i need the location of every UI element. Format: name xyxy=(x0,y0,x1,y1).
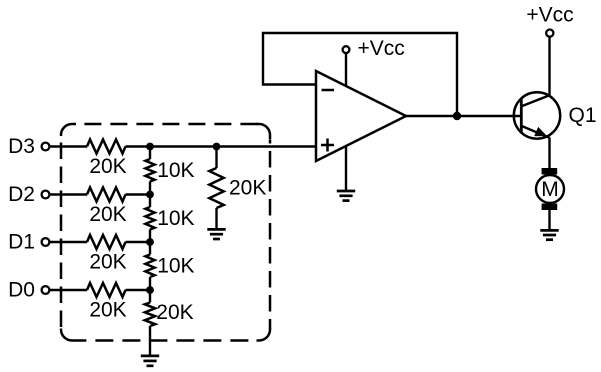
wire ladder segment xyxy=(149,277,151,290)
wire 20K to ground xyxy=(149,326,151,356)
wire +Vcc to collector xyxy=(548,38,550,96)
wire +Vcc to op-amp xyxy=(345,54,347,87)
+Vcc terminal (op-amp supply) xyxy=(343,37,405,60)
svg-text:D3: D3 xyxy=(8,135,35,158)
svg-text:D1: D1 xyxy=(8,231,35,254)
ground (motor) xyxy=(540,230,558,239)
resistor 20K (D1 input) xyxy=(87,235,127,273)
ground (ladder bottom) xyxy=(141,356,159,366)
resistor 10K (ladder rung 2) xyxy=(145,207,194,230)
svg-text:D2: D2 xyxy=(8,183,35,206)
input terminal D2 xyxy=(8,183,49,206)
node ladder junction y=146 xyxy=(146,143,154,151)
svg-text:M: M xyxy=(541,178,559,201)
wire ladder segment xyxy=(149,147,151,160)
svg-text:Q1: Q1 xyxy=(569,104,597,127)
wire D2 to resistor xyxy=(50,193,87,195)
wire D0 to resistor xyxy=(50,289,87,291)
wire motor to ground xyxy=(548,210,550,230)
svg-text:+Vcc: +Vcc xyxy=(358,37,405,60)
wire ladder segment xyxy=(149,195,151,208)
+Vcc terminal (collector supply) xyxy=(526,4,573,37)
op-amp U1 xyxy=(316,71,406,161)
node output junction xyxy=(453,112,461,120)
input terminal D1 xyxy=(8,231,49,254)
wire resistor to ladder node xyxy=(126,241,151,243)
resistor 20K (D3 input) xyxy=(87,140,127,178)
wire D1 to resistor xyxy=(50,241,87,243)
resistor 20K (D0 input) xyxy=(87,283,127,321)
motor M xyxy=(536,168,564,210)
wire emitter to motor xyxy=(548,138,550,169)
resistor 20K (ladder terminator) xyxy=(145,301,194,326)
ground (20K load) xyxy=(207,229,225,239)
svg-text:D0: D0 xyxy=(8,279,35,302)
dashed box (R-2R ladder network) xyxy=(61,124,270,341)
wire D3 node to op-amp non-inverting input xyxy=(150,145,316,147)
wire node to 20K load xyxy=(215,147,217,169)
svg-text:+Vcc: +Vcc xyxy=(526,4,573,27)
svg-text:10K: 10K xyxy=(157,207,194,230)
ground (op-amp) xyxy=(337,191,355,201)
input terminal D3 xyxy=(8,135,49,158)
resistor 10K (ladder rung 3) xyxy=(145,254,194,277)
input terminal D0 xyxy=(8,279,49,302)
wire op-amp output to Q1 base xyxy=(406,115,521,117)
wire resistor to ladder node xyxy=(126,193,151,195)
node ladder junction y=290 xyxy=(146,286,154,294)
svg-text:20K: 20K xyxy=(156,301,193,324)
wire ladder segment xyxy=(149,182,151,195)
transistor Q1 xyxy=(514,92,597,138)
wire D3 to resistor xyxy=(50,145,87,147)
svg-text:10K: 10K xyxy=(157,254,194,277)
resistor 20K (load) xyxy=(209,168,266,208)
resistor 20K (D2 input) xyxy=(87,188,127,226)
svg-text:20K: 20K xyxy=(89,250,126,273)
resistor 10K (ladder rung 1) xyxy=(145,159,194,182)
wire resistor to ladder node xyxy=(126,145,151,147)
svg-text:20K: 20K xyxy=(89,203,126,226)
node ladder junction y=242 xyxy=(146,238,154,246)
wire ladder segment xyxy=(149,230,151,243)
node ladder junction y=194 xyxy=(146,191,154,199)
node 20K load junction xyxy=(213,143,221,151)
wire resistor to ladder node xyxy=(126,289,151,291)
wire op-amp to ground xyxy=(345,146,347,191)
svg-text:20K: 20K xyxy=(89,298,126,321)
wire D0 node to 20K xyxy=(149,290,151,303)
svg-text:10K: 10K xyxy=(157,159,194,182)
wire 20K load to ground xyxy=(215,208,217,228)
svg-text:20K: 20K xyxy=(229,177,266,200)
wire ladder segment xyxy=(149,242,151,255)
wire feedback loop (output to inverting input) xyxy=(263,33,457,116)
svg-text:20K: 20K xyxy=(89,155,126,178)
